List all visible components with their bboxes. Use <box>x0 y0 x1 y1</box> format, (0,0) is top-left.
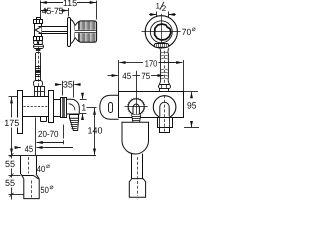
svg-text:45-75: 45-75 <box>42 6 64 16</box>
svg-text:45: 45 <box>122 71 131 81</box>
svg-text:35: 35 <box>63 79 73 89</box>
svg-text:45: 45 <box>25 144 33 154</box>
svg-text:⌀: ⌀ <box>46 163 50 170</box>
svg-text:70: 70 <box>182 27 192 37</box>
svg-text:55: 55 <box>5 159 15 169</box>
svg-text:75: 75 <box>141 71 150 81</box>
svg-text:140: 140 <box>88 125 103 135</box>
svg-text:2: 2 <box>162 4 167 13</box>
svg-text:20-70: 20-70 <box>38 129 59 139</box>
svg-text:40: 40 <box>37 164 46 174</box>
svg-text:50: 50 <box>40 185 49 195</box>
svg-text:55: 55 <box>5 178 15 188</box>
svg-text:95: 95 <box>187 101 197 111</box>
svg-text:1: 1 <box>81 103 86 113</box>
svg-text:170: 170 <box>145 59 158 69</box>
svg-text:115: 115 <box>63 0 77 8</box>
svg-text:⌀: ⌀ <box>192 26 196 33</box>
svg-text:175: 175 <box>4 118 19 128</box>
svg-text:⌀: ⌀ <box>50 184 54 191</box>
